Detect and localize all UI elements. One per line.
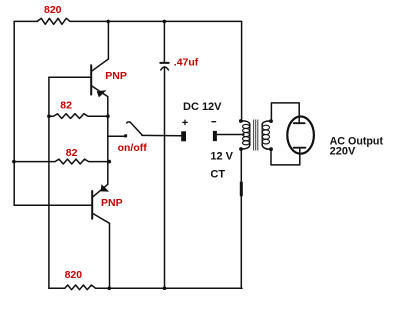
resistor R1 820 zigzag — [37, 18, 70, 24]
svg-text:on/off: on/off — [118, 142, 148, 154]
transformer T1 primary wire — [249, 124, 251, 145]
resistor R2 82 upper — [49, 114, 108, 119]
svg-text:820: 820 — [44, 4, 62, 16]
transformer T1 core lines — [254, 120, 258, 151]
transformer T1 secondary bottom hook — [262, 144, 271, 149]
svg-text:CT: CT — [210, 168, 225, 180]
wire left rail — [13, 21, 15, 205]
svg-text:12 V: 12 V — [210, 150, 233, 162]
transistor Q2 base bar — [91, 191, 93, 219]
node emitter line / R3 — [108, 160, 112, 164]
node bottom rail / Q2 collector — [108, 286, 112, 290]
transformer T1 primary loops — [243, 124, 250, 144]
node emitter line / R2 — [106, 114, 110, 118]
AC socket body — [287, 117, 314, 154]
resistor R4 820 bottom zigzag — [65, 285, 96, 290]
resistor R3 82 lower — [14, 159, 109, 164]
node transformer secondary top — [269, 119, 273, 123]
capacitor C1 top wire — [163, 21, 165, 62]
transistor Q1 collector diagonal — [92, 59, 109, 71]
transistor Q2 emitter diagonal — [93, 184, 108, 197]
wire top rail left segment — [14, 20, 37, 22]
wire emitter node line — [107, 97, 109, 185]
svg-text:820: 820 — [65, 269, 83, 281]
wire CT line — [240, 149, 242, 288]
AC socket top pin — [294, 122, 305, 124]
battery BT1 minus plate — [213, 131, 217, 141]
transistor Q2 emitter arrow — [101, 186, 107, 191]
wire CT thick bulge — [240, 182, 243, 197]
capacitor C1 curved plate — [161, 67, 169, 70]
wire switch branch — [108, 135, 124, 137]
capacitor C1 top plate — [160, 62, 168, 64]
node transformer primary top — [239, 119, 243, 123]
capacitor C1 bottom wire — [164, 67, 166, 289]
node top rail / Q1 collector — [106, 20, 110, 24]
svg-text:.47uf: .47uf — [174, 57, 199, 69]
transistor Q1 emitter diagonal — [92, 86, 108, 97]
wire Q2 collector vertical — [109, 223, 111, 288]
transformer T1 primary bottom hook — [241, 144, 250, 149]
svg-text:PNP: PNP — [105, 70, 127, 82]
wire top rail right segment — [70, 20, 242, 22]
transformer T1 secondary loops — [262, 125, 269, 144]
wire bottom rail right segment — [96, 287, 243, 289]
wire second rail — [48, 77, 50, 288]
battery plus sign — [183, 120, 187, 124]
wire Q1 base line — [49, 76, 91, 78]
svg-text:82: 82 — [66, 147, 78, 159]
transformer T1 secondary wire — [261, 124, 263, 145]
battery minus sign — [212, 121, 216, 123]
transformer T1 secondary top hook — [262, 121, 271, 125]
node transformer primary bottom — [239, 147, 243, 151]
battery BT1 plus plate — [181, 131, 186, 141]
switch S1 lever — [127, 122, 142, 135]
svg-text:220V: 220V — [330, 145, 356, 157]
transistor Q1 base bar — [90, 65, 92, 94]
transformer T1 primary top hook — [241, 121, 250, 125]
svg-text:DC 12V: DC 12V — [183, 101, 222, 113]
wire Q2 base line — [14, 204, 92, 206]
transistor Q2 collector diagonal — [93, 213, 110, 223]
node second rail / R2 — [47, 114, 51, 118]
svg-text:82: 82 — [60, 100, 72, 112]
wire bottom rail left segment — [49, 287, 65, 289]
node top rail / capacitor — [163, 20, 167, 24]
wire Q1 collector vertical — [107, 21, 109, 59]
switch S1 contact square — [124, 134, 127, 137]
wire right vertical to transformer — [241, 21, 243, 121]
AC socket bottom pin — [294, 147, 306, 149]
wire plug top link — [271, 103, 299, 123]
node transformer secondary bottom — [269, 147, 273, 151]
transistor Q1 emitter arrow — [98, 91, 105, 96]
wire battery minus to transformer — [217, 134, 244, 136]
wire switch to battery — [142, 134, 181, 136]
wire plug bottom link — [271, 148, 300, 165]
node bottom rail / capacitor — [163, 286, 167, 290]
svg-text:PNP: PNP — [101, 197, 123, 209]
node left rail / R3 — [12, 160, 16, 164]
